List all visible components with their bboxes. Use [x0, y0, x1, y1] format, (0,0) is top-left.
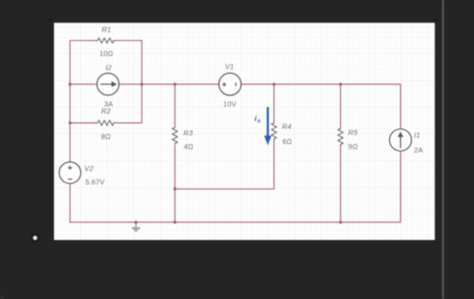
svg-text:R5: R5 — [348, 128, 358, 137]
resistor R5 — [338, 127, 343, 146]
wire R2 left lead — [70, 122, 96, 124]
ground — [132, 222, 141, 231]
resistor R1 — [95, 38, 117, 43]
wire R4 bottom link to R3 — [175, 139, 274, 190]
svg-text:6Ω: 6Ω — [282, 137, 292, 146]
schematic canvas — [54, 23, 435, 240]
wire V1 right to I1 top — [241, 84, 401, 129]
node R5 bottom junction — [339, 221, 342, 224]
resistor R4 — [272, 122, 277, 141]
svg-text:2A: 2A — [414, 146, 423, 155]
svg-text:R1: R1 — [102, 25, 112, 34]
svg-text:R4: R4 — [282, 122, 292, 131]
current annotation arrow i_o — [255, 107, 272, 145]
node left-I2 junction — [69, 83, 72, 86]
node ground junction — [135, 221, 138, 224]
svg-text:I2: I2 — [105, 63, 111, 72]
node R1/I2 right junction — [140, 83, 143, 86]
current source I2 — [97, 73, 119, 95]
svg-text:5.67V: 5.67V — [85, 178, 105, 187]
svg-text:o: o — [258, 119, 261, 125]
node R3 bottom junction — [173, 221, 176, 224]
node R5 top junction — [339, 83, 342, 86]
faint corner icon — [47, 18, 53, 23]
svg-text:8Ω: 8Ω — [101, 132, 111, 141]
bottom-left smudge — [0, 296, 4, 299]
voltage source V1 — [219, 73, 241, 95]
svg-text:4Ω: 4Ω — [184, 142, 194, 151]
svg-text:V1: V1 — [225, 62, 234, 71]
resistor R2 — [95, 120, 117, 125]
svg-text:R3: R3 — [183, 129, 193, 138]
wire R1 right to vertical down to R2 level — [117, 41, 142, 123]
voltage source V2 — [59, 162, 81, 184]
wire I2 right to V1 left — [119, 83, 219, 85]
svg-text:3A: 3A — [104, 100, 113, 109]
node R3-R4 link junction — [173, 188, 176, 191]
white dot marker — [31, 234, 39, 242]
wire I1 bottom to bottom rail to V2 bottom — [70, 151, 401, 222]
right separator line — [442, 0, 444, 299]
current source I1 — [390, 129, 412, 151]
faint corner smudge top-right — [434, 19, 438, 23]
svg-text:10V: 10V — [223, 99, 236, 108]
svg-text:V2: V2 — [84, 164, 93, 173]
node R3 top junction — [173, 83, 176, 86]
svg-text:9Ω: 9Ω — [348, 142, 358, 151]
wire node to I2 left — [70, 83, 97, 85]
node R4 top junction — [273, 83, 276, 86]
svg-text:10Ω: 10Ω — [99, 49, 113, 58]
svg-text:I1: I1 — [414, 131, 420, 140]
wire R5 bottom branch — [340, 145, 342, 222]
resistor R3 — [172, 126, 177, 145]
wire left vertical from V2 up and top run to R1 — [70, 41, 95, 163]
wire R3 bottom branch — [174, 146, 176, 223]
wire R3 top branch — [174, 84, 176, 126]
wire R5 top branch — [340, 84, 342, 127]
wire R4 top branch — [273, 84, 275, 121]
node left-R2 junction — [69, 121, 72, 124]
